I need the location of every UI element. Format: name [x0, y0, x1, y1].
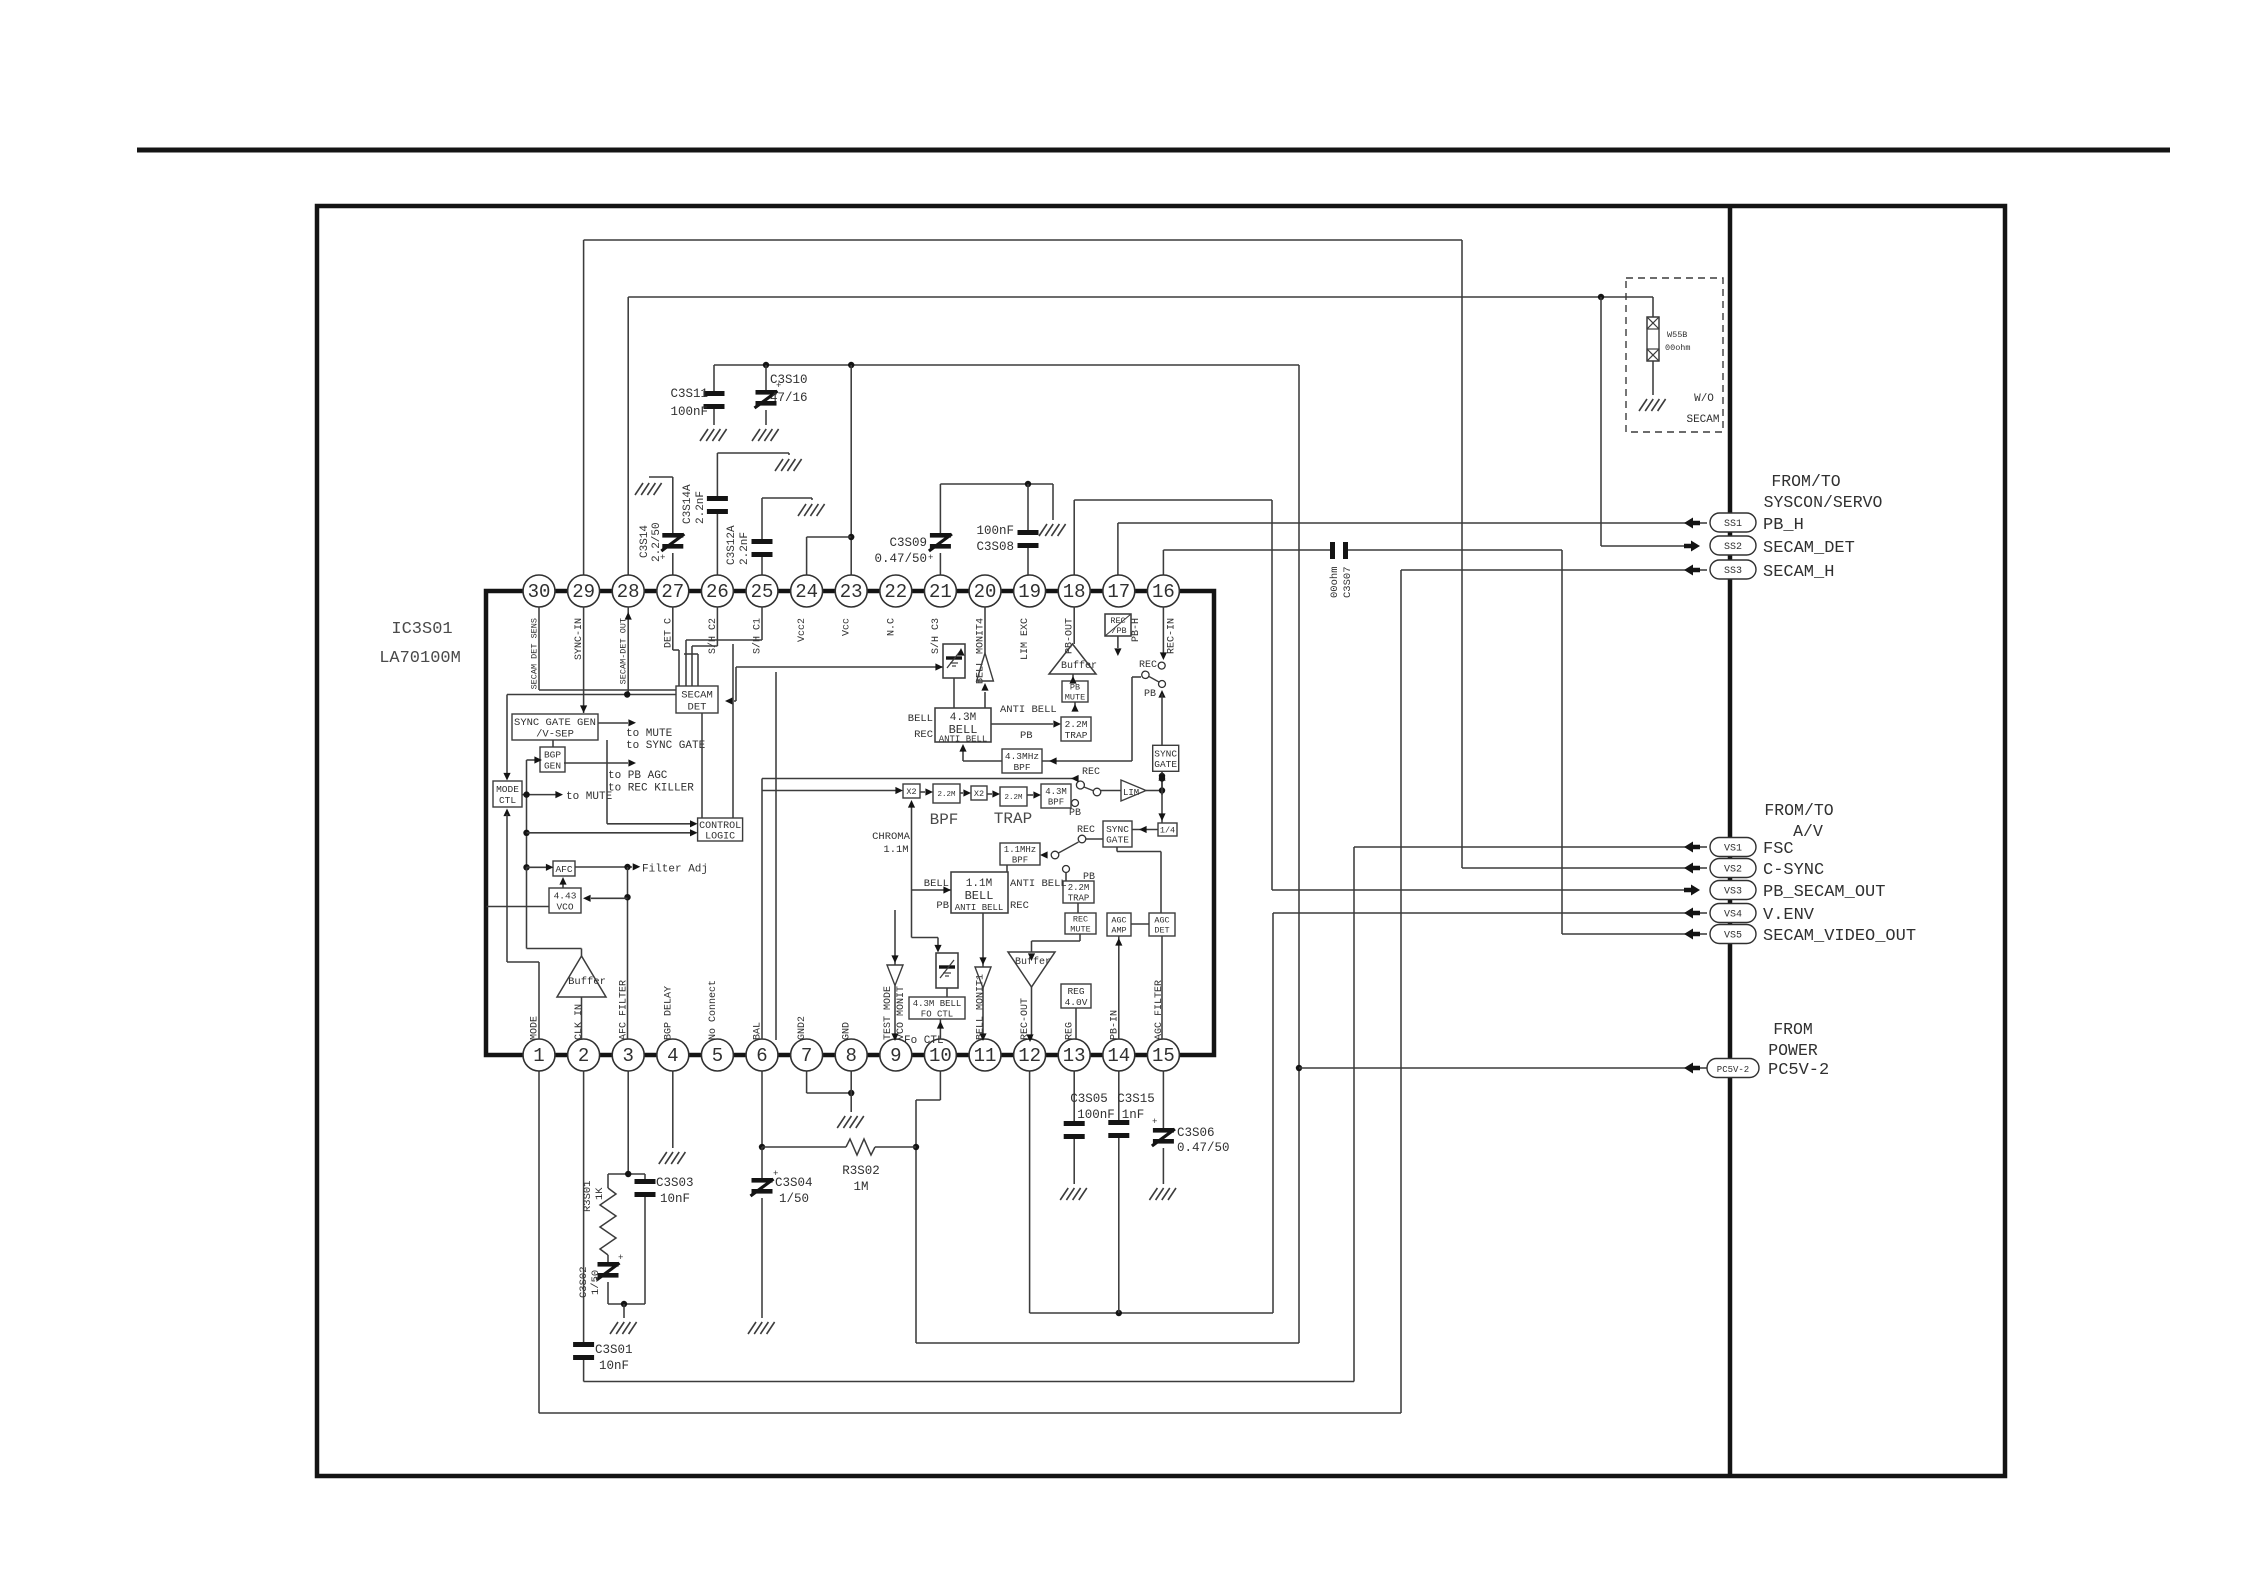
svg-text:4.3M BELL: 4.3M BELL — [913, 999, 962, 1009]
svg-text:30: 30 — [528, 581, 551, 603]
svg-text:27: 27 — [661, 581, 684, 603]
ground for C3S14A — [775, 459, 802, 471]
svg-text:MODE: MODE — [496, 784, 519, 795]
svg-text:LIM EXC: LIM EXC — [1020, 618, 1031, 660]
capacitor C3S04 1/50 at pin6 — [761, 1071, 763, 1147]
svg-text:FSC: FSC — [1763, 840, 1794, 859]
svg-text:3: 3 — [622, 1045, 633, 1067]
svg-text:28: 28 — [617, 581, 640, 603]
svg-text:8: 8 — [845, 1045, 856, 1067]
svg-text:BPF: BPF — [1012, 855, 1028, 865]
svg-text:SECAM_VIDEO_OUT: SECAM_VIDEO_OUT — [1763, 927, 1916, 946]
svg-text:VS5: VS5 — [1724, 931, 1742, 942]
svg-text:VCO: VCO — [556, 901, 573, 912]
node PC5V junction — [1296, 1065, 1302, 1071]
ground below C3S05 — [1060, 1188, 1087, 1200]
svg-text:REG: REG — [1067, 986, 1084, 997]
svg-text:2.2M: 2.2M — [1004, 794, 1023, 802]
svg-text:SS3: SS3 — [1724, 566, 1742, 577]
svg-text:C3S12A: C3S12A — [726, 525, 738, 565]
REC/PB box under pin17 — [1105, 614, 1131, 636]
connector VS5 SECAM_VIDEO_OUT — [1684, 929, 1700, 940]
pin 5 circle — [701, 1039, 733, 1071]
block AFC — [553, 861, 575, 876]
svg-text:+: + — [618, 1253, 623, 1263]
svg-text:V.ENV: V.ENV — [1763, 906, 1815, 925]
capacitor C3S02 1/50 — [598, 1262, 619, 1267]
wire varactor to 4.3M BELL — [953, 678, 955, 708]
svg-text:16: 16 — [1152, 581, 1175, 603]
wire mode bus to CONTROL LOGIC — [523, 830, 529, 836]
ground for C3S14 — [635, 483, 662, 495]
svg-text:AGC FILTER: AGC FILTER — [1154, 980, 1165, 1040]
svg-text:SECAM_H: SECAM_H — [1763, 563, 1834, 582]
pin 28 circle — [612, 575, 644, 607]
pin 30 circle — [523, 575, 555, 607]
connector PC5V-2 — [1684, 1063, 1700, 1074]
wire 1/4 to SYNC GATE lower — [1132, 829, 1158, 831]
capacitor C3S10 47/16 — [765, 365, 767, 390]
svg-text:X2: X2 — [974, 789, 984, 799]
resistor R3S02 1M — [762, 1146, 846, 1148]
block 1.1M BELL ANTI BELL — [951, 872, 1008, 913]
svg-text:PB: PB — [1144, 689, 1156, 700]
wire PC5V-2 to stadium — [1299, 1067, 1692, 1069]
pin 16 circle — [1147, 575, 1179, 607]
svg-text:12: 12 — [1018, 1045, 1041, 1067]
W/O SECAM option dashed box — [1626, 278, 1723, 432]
svg-text:C3S05: C3S05 — [1070, 1092, 1108, 1106]
IC IC3S01 LA70100M body — [486, 591, 1214, 1055]
pin 8 circle — [835, 1039, 867, 1071]
pin 10 circle — [924, 1039, 956, 1071]
svg-text:VS3: VS3 — [1724, 887, 1742, 898]
svg-text:W/O: W/O — [1694, 393, 1714, 405]
svg-text:VS2: VS2 — [1724, 865, 1742, 876]
capacitor C3S11 100nF — [713, 365, 715, 391]
wire Vcc rail C3S10/C3S11 top — [714, 364, 1299, 366]
chain connector arrows — [925, 788, 933, 795]
pin 1 circle — [523, 1039, 555, 1071]
wire CLK IN pin2 through C3S01 to FSC — [583, 1071, 585, 1342]
block BGP GEN — [540, 747, 565, 772]
wire SYNC GATE to CONTROL LOGIC — [606, 740, 608, 824]
wire PC5V branch to Fo CTL — [916, 1342, 1299, 1344]
block 4.3MHz BPF — [1002, 749, 1042, 773]
wire pin23 Vcc riser — [850, 365, 852, 575]
svg-text:SECAM-DET OUT: SECAM-DET OUT — [619, 618, 629, 684]
svg-text:10: 10 — [929, 1045, 952, 1067]
svg-text:2.2nF: 2.2nF — [695, 491, 707, 524]
svg-text:SECAM: SECAM — [681, 689, 713, 701]
svg-text:+: + — [928, 553, 933, 563]
svg-text:PB: PB — [1069, 808, 1081, 819]
svg-text:10nF: 10nF — [599, 1359, 629, 1373]
svg-text:GATE: GATE — [1154, 759, 1177, 770]
svg-text:LIM: LIM — [1123, 788, 1139, 798]
node at pin23 riser — [848, 362, 854, 368]
wire V.ENV to VS4 — [1273, 912, 1692, 914]
svg-text:LOGIC: LOGIC — [705, 831, 735, 842]
svg-text:GATE: GATE — [1106, 835, 1129, 846]
svg-text:TRAP: TRAP — [1065, 730, 1088, 741]
capacitor C3S09 0.47/50 at pin21 — [939, 484, 941, 533]
pin 24 circle — [791, 575, 823, 607]
wire PB-OUT pin18 to PB_SECAM_OUT — [1073, 500, 1075, 575]
wire SECAM DET to CONTROL LOGIC — [701, 713, 703, 818]
svg-text:REC: REC — [1077, 825, 1095, 836]
svg-text:to PB AGC: to PB AGC — [608, 770, 668, 782]
svg-text:C3S02: C3S02 — [578, 1266, 590, 1298]
svg-text:PB: PB — [1020, 730, 1033, 742]
node below SYNC GATE — [1161, 771, 1163, 795]
svg-text:VS4: VS4 — [1724, 910, 1742, 921]
svg-text:2: 2 — [578, 1045, 589, 1067]
svg-text:FROM/TO: FROM/TO — [1771, 472, 1840, 491]
svg-text:S/H C3: S/H C3 — [930, 618, 942, 654]
block SYNC GATE upper — [1153, 745, 1179, 771]
svg-text:SECAM: SECAM — [1686, 414, 1719, 426]
svg-text:14: 14 — [1107, 1045, 1130, 1067]
capacitor C3S08 100nF at pin19 — [1027, 484, 1029, 530]
pin 7 circle — [791, 1039, 823, 1071]
svg-text:Buffer: Buffer — [568, 976, 606, 988]
block 1.1MHz BPF — [1000, 843, 1040, 865]
svg-text:C3S15: C3S15 — [1117, 1092, 1155, 1106]
wire fan to SECAM DET — [672, 607, 674, 650]
block CONTROL LOGIC — [698, 818, 743, 841]
block 4.3M BELL FO CTL — [909, 997, 965, 1019]
wire pin21 top rail — [940, 483, 1053, 485]
svg-text:9: 9 — [890, 1045, 901, 1067]
svg-text:1M: 1M — [853, 1180, 868, 1194]
wire MODE pin1 down — [538, 1071, 540, 1413]
pin 4 circle — [657, 1039, 689, 1071]
svg-text:to MUTE: to MUTE — [566, 791, 613, 803]
svg-text:Filter Adj: Filter Adj — [642, 864, 708, 876]
svg-text:SYNC GATE GEN: SYNC GATE GEN — [514, 717, 596, 729]
resistor R3S01 1K / capacitor C3S02 with C3S03 at pin3 — [627, 1071, 629, 1174]
svg-text:PB-H: PB-H — [1131, 618, 1142, 642]
svg-text:PB: PB — [1070, 683, 1080, 693]
wire REG to pin13 — [1075, 1008, 1077, 1039]
svg-text:SYSCON/SERVO: SYSCON/SERVO — [1764, 493, 1883, 512]
svg-text:to REC KILLER: to REC KILLER — [608, 783, 694, 795]
wire AFC to pin3 — [627, 867, 629, 1039]
svg-text:LA70100M: LA70100M — [379, 649, 461, 668]
svg-text:23: 23 — [840, 581, 863, 603]
page divider thick vertical line — [1728, 206, 1733, 1476]
svg-text:/V-SEP: /V-SEP — [536, 729, 574, 741]
svg-text:4.43: 4.43 — [554, 890, 577, 901]
svg-text:29: 29 — [572, 581, 595, 603]
svg-text:GND: GND — [842, 1022, 853, 1040]
svg-text:to MUTE: to MUTE — [626, 728, 673, 740]
svg-text:REC: REC — [1082, 767, 1100, 778]
svg-text:W55B: W55B — [1667, 330, 1687, 340]
svg-text:100nF: 100nF — [976, 524, 1014, 538]
svg-text:BELL: BELL — [965, 889, 994, 903]
wire VCO left — [487, 906, 550, 908]
svg-text:0.47/50: 0.47/50 — [874, 552, 927, 566]
svg-text:R3S02: R3S02 — [842, 1164, 880, 1178]
svg-text:47/16: 47/16 — [770, 391, 808, 405]
wire REC bus to switch — [762, 778, 1075, 780]
svg-text:PC5V-2: PC5V-2 — [1768, 1061, 1829, 1080]
svg-text:2.2nF: 2.2nF — [739, 532, 751, 565]
svg-text:SECAM DET SENS: SECAM DET SENS — [530, 618, 540, 689]
svg-text:ANTI BELL: ANTI BELL — [955, 903, 1004, 913]
svg-text:C3S14: C3S14 — [639, 525, 651, 558]
svg-text:VS1: VS1 — [1724, 844, 1742, 855]
wire interior bus verticals — [732, 644, 734, 818]
svg-text:BGP DELAY: BGP DELAY — [663, 986, 674, 1040]
pin 21 circle — [924, 575, 956, 607]
pin 6 circle — [746, 1039, 778, 1071]
block AGC AMP — [1107, 913, 1131, 936]
svg-text:No Connect: No Connect — [708, 980, 719, 1040]
svg-text:GEN: GEN — [544, 760, 561, 771]
pin 29 circle — [568, 575, 600, 607]
svg-text:AGC: AGC — [1154, 916, 1169, 926]
svg-text:BELL: BELL — [908, 713, 933, 725]
pin 27 circle — [657, 575, 689, 607]
svg-text:A/V: A/V — [1793, 822, 1823, 841]
block SYNC GATE GEN /V-SEP — [512, 714, 598, 740]
block MODE CTL — [493, 781, 522, 807]
svg-text:00ohm: 00ohm — [1665, 343, 1691, 353]
capacitor C3S14A 2.2nF at pin26 — [716, 453, 718, 496]
pin 20 circle — [969, 575, 1001, 607]
svg-text:15: 15 — [1152, 1045, 1175, 1067]
svg-text:5: 5 — [712, 1045, 723, 1067]
svg-text:GND2: GND2 — [797, 1016, 808, 1040]
svg-text:X2: X2 — [906, 787, 916, 797]
switch REC/PB at pin16 — [1162, 607, 1164, 654]
svg-text:4.3MHz: 4.3MHz — [1005, 751, 1039, 762]
svg-text:Vcc: Vcc — [842, 618, 853, 636]
svg-text:Vcc2: Vcc2 — [797, 618, 808, 642]
capacitor C3S15 1nF at pin14 — [1118, 1071, 1120, 1120]
block SYNC GATE lower — [1103, 821, 1132, 847]
ground below C3S10 — [752, 429, 779, 441]
svg-text:CTL: CTL — [499, 795, 516, 806]
svg-text:N.C: N.C — [886, 618, 897, 636]
svg-text:2.2M: 2.2M — [937, 791, 956, 799]
wire pin29 to SYNC GATE GEN — [583, 607, 585, 713]
svg-text:FO CTL: FO CTL — [921, 1009, 953, 1019]
svg-text:REC: REC — [914, 729, 933, 741]
svg-text:Buffer: Buffer — [1061, 660, 1097, 672]
svg-text:SYNC: SYNC — [1154, 748, 1177, 759]
wire varactor line into SECAM DET right — [736, 666, 943, 668]
wire SECAM_VIDEO_OUT to VS5 — [1562, 933, 1692, 935]
svg-text:C3S14A: C3S14A — [682, 484, 694, 524]
wire SECAM_H net — [1401, 569, 1692, 571]
capacitor C3S12A 2.2nF at pin25 — [761, 498, 763, 539]
block AGC DET — [1149, 913, 1175, 936]
wire BPF right to REC switch — [1042, 760, 1132, 762]
pin 19 circle — [1014, 575, 1046, 607]
svg-text:11: 11 — [974, 1045, 997, 1067]
pin 11 circle — [969, 1039, 1001, 1071]
svg-text:ANTI BELL: ANTI BELL — [1000, 704, 1057, 716]
node pin24 joins pin23 riser — [848, 534, 854, 540]
wire 4.3M BELL to 2.2M TRAP — [991, 723, 1053, 725]
svg-text:BGP: BGP — [544, 749, 561, 760]
pin 2 circle — [568, 1039, 600, 1071]
svg-text:R3S01: R3S01 — [582, 1180, 594, 1212]
svg-text:POWER: POWER — [1768, 1041, 1818, 1060]
svg-text:SS1: SS1 — [1724, 519, 1742, 530]
svg-text:FROM: FROM — [1773, 1020, 1813, 1039]
LIM amplifier triangle — [1121, 780, 1146, 801]
svg-text:C3S07: C3S07 — [1342, 566, 1354, 598]
svg-text:PB_SECAM_OUT: PB_SECAM_OUT — [1763, 883, 1885, 902]
block 4.43 VCO — [549, 888, 581, 913]
wire MODE CTL to MUTE — [522, 794, 556, 796]
block 1/4 divider — [1158, 823, 1177, 836]
wire chroma up into X2 — [911, 806, 913, 938]
wire AGC AMP to pin14 — [1118, 936, 1120, 1039]
svg-text:1K: 1K — [594, 1187, 606, 1200]
wire FSC to VS1 — [1354, 846, 1692, 848]
monitor triangle BELL MONIT1 pin11 — [975, 967, 991, 988]
wire C-SYNC to VS2 — [1462, 867, 1692, 869]
block 4.3M BELL / ANTI BELL — [935, 708, 991, 742]
svg-text:REC-IN: REC-IN — [1166, 618, 1177, 654]
pin 14 circle — [1103, 1039, 1135, 1071]
svg-text:TRAP: TRAP — [1068, 893, 1090, 903]
svg-text:MUTE: MUTE — [1065, 693, 1085, 703]
svg-text:C3S06: C3S06 — [1177, 1126, 1215, 1140]
svg-text:+: + — [1152, 1117, 1157, 1127]
connector SS2 SECAM_DET — [1684, 541, 1700, 552]
svg-text:REC-OUT: REC-OUT — [1020, 998, 1031, 1040]
outer border frame — [317, 206, 2005, 1476]
svg-text:13: 13 — [1063, 1045, 1086, 1067]
svg-text:TRAP: TRAP — [994, 810, 1032, 828]
svg-text:00ohm: 00ohm — [1329, 566, 1341, 598]
pin 9 circle — [880, 1039, 912, 1071]
block REG 4.0V — [1061, 984, 1091, 1008]
wire REC-OUT/PB-IN bottom bus — [1029, 1071, 1031, 1313]
svg-text:7: 7 — [801, 1045, 812, 1067]
ground for pin21 rail — [1052, 484, 1054, 520]
svg-text:IC3S01: IC3S01 — [391, 620, 452, 639]
svg-text:0.47/50: 0.47/50 — [1177, 1141, 1230, 1155]
pin 18 circle — [1058, 575, 1090, 607]
buffer triangle REC-OUT — [1008, 952, 1055, 987]
svg-text:1.1MHz: 1.1MHz — [1004, 845, 1036, 855]
wire AGC DET to pin15 — [1161, 936, 1163, 1039]
wire BPF to ANTI BELL arrow — [962, 749, 964, 761]
svg-text:CLK IN: CLK IN — [574, 1004, 585, 1040]
wire pin7 GND2 to pin8 GND — [806, 1071, 808, 1093]
wire pin28 into IC — [627, 607, 629, 695]
wire MODE CTL down to pin1 — [503, 809, 510, 817]
capacitor C3S07 00ohm — [1330, 542, 1335, 559]
svg-text:4.3M: 4.3M — [1045, 787, 1067, 797]
pin 17 circle — [1103, 575, 1135, 607]
connector VS1 FSC — [1684, 842, 1700, 853]
node R3S02 junction right — [913, 1144, 919, 1150]
svg-text:2.2M: 2.2M — [1065, 719, 1088, 730]
svg-text:PB: PB — [936, 900, 949, 912]
svg-text:REG: REG — [1065, 1022, 1076, 1040]
wire SECAM_DET down to SS2 — [1600, 297, 1602, 546]
svg-text:VCO MONIT: VCO MONIT — [896, 986, 907, 1040]
pin 3 circle — [612, 1039, 644, 1071]
connector SS1 PB_H — [1684, 518, 1700, 529]
svg-text:AMP: AMP — [1111, 926, 1126, 936]
pin 15 circle — [1147, 1039, 1179, 1071]
wire C-SYNC vertical — [1461, 240, 1463, 868]
wire to MUTE arrow — [598, 722, 628, 724]
wire pin10 to FO CTL — [939, 1019, 941, 1039]
wire FSC vertical — [1353, 847, 1355, 1382]
block 2.2M TRAP upper — [1061, 717, 1091, 741]
svg-text:CHROMA: CHROMA — [872, 831, 911, 843]
svg-text:SS2: SS2 — [1724, 542, 1742, 553]
svg-text:to SYNC GATE: to SYNC GATE — [626, 740, 706, 752]
page header rule — [137, 148, 2170, 153]
svg-text:2.2/50: 2.2/50 — [651, 522, 663, 562]
wire pin30 to SECAM DET — [538, 607, 540, 690]
wire PC5V rail vertical — [1298, 365, 1300, 1343]
svg-text:C3S03: C3S03 — [656, 1176, 694, 1190]
wire SECAM-DET net pin28 up and right — [627, 297, 629, 575]
svg-text:1/4: 1/4 — [1160, 826, 1175, 836]
node C3S08 tap — [1025, 481, 1031, 487]
wire BPF to 1.1M BELL — [1006, 865, 1008, 872]
svg-text:REC: REC — [1139, 660, 1157, 671]
block SECAM DET — [676, 686, 718, 713]
svg-text:C3S10: C3S10 — [770, 373, 808, 387]
node SECAM_DET junction — [1598, 294, 1604, 300]
svg-text:18: 18 — [1063, 581, 1086, 603]
block REC MUTE — [1065, 913, 1096, 934]
svg-text:DET: DET — [1154, 926, 1169, 936]
ground for C3S12A — [798, 504, 825, 516]
varactor monitor lower — [936, 953, 958, 988]
svg-text:C3S01: C3S01 — [595, 1343, 633, 1357]
svg-text:1nF: 1nF — [1122, 1108, 1145, 1122]
svg-text:TEST MODE: TEST MODE — [883, 986, 894, 1040]
svg-text:Fo CTL: Fo CTL — [904, 1035, 944, 1047]
multiplier chain X2 boxes — [903, 784, 920, 798]
wire V.ENV vertical — [1272, 913, 1274, 1313]
wire MODE CTL feed bus — [526, 760, 528, 867]
svg-text:1/50: 1/50 — [590, 1270, 602, 1295]
monitor buffer triangle pin20 — [977, 653, 994, 681]
svg-text:10nF: 10nF — [660, 1192, 690, 1206]
wire SYNC GATE lower to AGC DET — [1116, 847, 1118, 852]
svg-text:21: 21 — [929, 581, 952, 603]
node PB-IN joins bus — [1116, 1310, 1122, 1316]
svg-text:22: 22 — [884, 581, 907, 603]
ground at pin4 BGP DELAY — [672, 1071, 674, 1148]
svg-text:BPF: BPF — [1048, 797, 1064, 807]
jumper W55B 00ohm — [1652, 297, 1654, 317]
ground below C3S11 — [700, 429, 727, 441]
svg-text:BPF: BPF — [930, 811, 959, 829]
svg-text:C3S04: C3S04 — [775, 1176, 813, 1190]
pin 13 circle — [1058, 1039, 1090, 1071]
pin 22 circle — [880, 575, 912, 607]
capacitor C3S05 100nF at pin13 — [1073, 1071, 1075, 1121]
wire SYNC-IN pin29 to C-SYNC net (top horizontal) — [584, 239, 1462, 241]
